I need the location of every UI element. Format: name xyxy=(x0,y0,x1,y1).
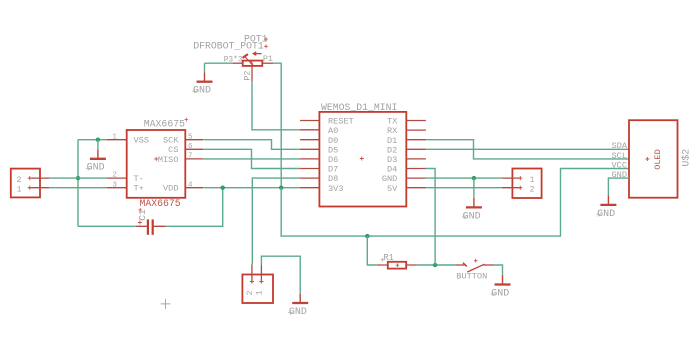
connector X2 pin 2 stub xyxy=(251,265,253,283)
MAX6675 pin 7 MISO stub xyxy=(185,158,203,160)
svg-text:4: 4 xyxy=(188,181,193,189)
node junction P1/3V3 xyxy=(279,186,283,190)
MAX6675 pin 1 VSS stub xyxy=(107,139,127,141)
ground (button) xyxy=(491,275,511,299)
module U2 WEMOS_D1_MINI box xyxy=(319,112,406,207)
svg-text:6: 6 xyxy=(188,143,193,151)
pot wiper stub P2 xyxy=(251,66,253,81)
ground (pot) xyxy=(192,72,212,96)
sheet origin cross xyxy=(161,299,171,309)
svg-text:OLED: OLED xyxy=(653,149,663,170)
connector X3 pin 1 stub xyxy=(502,177,522,179)
svg-text:SCK: SCK xyxy=(163,136,179,146)
node junction VSS/GND xyxy=(96,138,100,142)
node junction VDD/C1 xyxy=(221,186,225,190)
svg-text:SCL: SCL xyxy=(612,151,627,161)
ground (X3) xyxy=(462,198,482,222)
svg-text:1: 1 xyxy=(530,176,535,185)
wire D1 to SCL xyxy=(426,140,629,159)
wire OLED GND to ground xyxy=(608,178,629,195)
svg-text:2: 2 xyxy=(530,185,535,194)
wire MISO to D6 xyxy=(203,158,300,160)
node junction GND row xyxy=(472,176,476,180)
connector X1 pin 2 stub xyxy=(29,177,50,179)
POT1 origin crosses xyxy=(264,37,268,41)
svg-text:D7: D7 xyxy=(328,165,338,175)
svg-text:D6: D6 xyxy=(328,155,338,165)
wire D2 to SDA xyxy=(426,148,629,150)
svg-text:D3: D3 xyxy=(387,155,397,165)
resistor R1 xyxy=(377,262,417,269)
connector X2 (bottom) box xyxy=(242,275,273,304)
svg-text:TX: TX xyxy=(387,117,397,127)
svg-text:1: 1 xyxy=(112,133,117,141)
svg-text:MAX6675: MAX6675 xyxy=(144,119,185,130)
svg-text:5: 5 xyxy=(188,133,193,141)
wire X1 pin1 to T+ xyxy=(49,187,107,189)
svg-text:DFROBOT_POT1: DFROBOT_POT1 xyxy=(193,40,264,51)
ground (X2) xyxy=(288,294,308,318)
svg-text:3V3: 3V3 xyxy=(328,184,343,194)
wire R1 right to button xyxy=(417,264,455,266)
svg-text:2: 2 xyxy=(245,290,255,295)
wire button to GND xyxy=(494,265,503,275)
ground (OLED) xyxy=(596,196,616,220)
wire P1 down to 3V3 row xyxy=(273,63,281,188)
svg-text:D5: D5 xyxy=(328,145,338,155)
IC U1 MAX6675 box xyxy=(127,130,186,198)
svg-text:D4: D4 xyxy=(387,165,397,175)
connector X3 (right) box xyxy=(512,169,541,199)
potentiometer POT1 body xyxy=(243,52,263,66)
svg-text:CS: CS xyxy=(168,145,178,155)
svg-text:C1: C1 xyxy=(137,209,148,221)
wire 5V row to connector X3 xyxy=(426,187,502,189)
svg-text:1: 1 xyxy=(17,185,22,194)
svg-text:1: 1 xyxy=(255,290,265,295)
connector X1 pin 1 stub xyxy=(29,187,50,189)
wire 3V3 net down and across xyxy=(281,169,629,237)
svg-text:BUTTON: BUTTON xyxy=(456,272,487,282)
wire X1 pin2 to T- xyxy=(49,177,107,179)
node junction R1/D4/button xyxy=(433,263,437,267)
svg-text:3: 3 xyxy=(112,181,117,189)
svg-text:D1: D1 xyxy=(387,136,397,146)
MAX6675 pin 4 VDD stub xyxy=(185,187,203,189)
svg-text:R1: R1 xyxy=(383,253,394,263)
connector X3 pin 2 stub xyxy=(502,187,522,189)
ground (MAX6675 VSS) xyxy=(86,149,106,173)
svg-text:U$2: U$2 xyxy=(681,149,692,167)
pot pin stub right xyxy=(262,62,273,64)
MAX6675 pin 2 T- stub xyxy=(107,177,127,179)
svg-text:VCC: VCC xyxy=(612,160,627,170)
svg-text:D2: D2 xyxy=(387,145,397,155)
wire junction down to R1 xyxy=(367,236,377,265)
svg-text:GND: GND xyxy=(382,174,397,184)
wire junction down to ground xyxy=(97,140,99,150)
wire VDD row to WEMOS 3V3 xyxy=(203,187,300,189)
svg-text:MAX6675: MAX6675 xyxy=(140,198,181,209)
wire pot left to GND xyxy=(205,63,233,72)
WEMOS left pin stubs xyxy=(300,120,319,122)
svg-text:5V: 5V xyxy=(387,184,398,194)
svg-text:D0: D0 xyxy=(328,136,338,146)
svg-text:MISO: MISO xyxy=(158,155,179,165)
svg-text:T-: T- xyxy=(134,174,144,184)
svg-text:VSS: VSS xyxy=(134,136,149,146)
wire C1 left to GND vertical xyxy=(78,225,136,227)
connector X1 (thermocouple) box xyxy=(11,169,40,198)
svg-text:RX: RX xyxy=(387,126,397,136)
MAX6675 pin 6 CS stub xyxy=(185,148,203,150)
svg-text:P2: P2 xyxy=(242,71,252,81)
svg-text:A0: A0 xyxy=(328,126,338,136)
node junction T- / GND vertical xyxy=(76,176,80,180)
wire D8 down to connector xyxy=(252,178,300,265)
switch BUTTON xyxy=(455,259,493,272)
wire GND net left vertical xyxy=(77,140,79,227)
wire D4 down to junction xyxy=(426,169,435,266)
wire wiper to A0 xyxy=(252,81,300,130)
wire SCK to D5 xyxy=(203,140,300,150)
svg-text:7: 7 xyxy=(188,153,193,161)
node junction 3V3/R1 xyxy=(365,234,369,238)
svg-text:T+: T+ xyxy=(134,184,144,194)
wire VSS to left vertical xyxy=(78,139,107,141)
capacitor C1 xyxy=(136,209,166,235)
wire C1 right up to VDD row xyxy=(165,188,222,227)
MAX6675 pin 5 SCK stub xyxy=(185,139,203,141)
connector X2 pin 1 stub xyxy=(260,265,262,283)
wire X2 pin1 to GND xyxy=(261,256,300,293)
pot pin stub left xyxy=(233,62,243,64)
svg-text:VDD: VDD xyxy=(163,184,178,194)
svg-text:D8: D8 xyxy=(328,174,338,184)
svg-text:2: 2 xyxy=(112,172,117,180)
wire junction down to ground xyxy=(473,178,475,198)
display U$2 OLED box xyxy=(629,120,678,198)
svg-text:SDA: SDA xyxy=(612,141,628,151)
wire CS to D7 xyxy=(203,149,300,168)
svg-text:2: 2 xyxy=(17,176,22,185)
WEMOS right pin stubs xyxy=(406,120,426,122)
wire GND row to connector X3 xyxy=(426,177,502,179)
MAX6675 pin 3 T+ stub xyxy=(107,187,127,189)
svg-text:WEMOS_D1_MINI: WEMOS_D1_MINI xyxy=(321,102,397,113)
